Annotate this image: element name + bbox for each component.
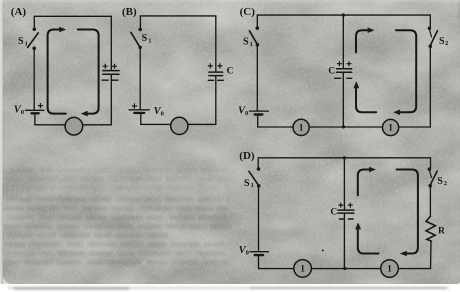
svg-text:1: 1 <box>251 182 254 189</box>
svg-text:R: R <box>438 226 445 236</box>
svg-text:0: 0 <box>246 250 249 257</box>
svg-text:2: 2 <box>445 40 448 47</box>
svg-text:1: 1 <box>387 264 392 274</box>
svg-text:1: 1 <box>299 122 304 132</box>
svg-text:(A): (A) <box>11 6 27 18</box>
svg-text:C: C <box>227 67 234 77</box>
svg-text:S: S <box>18 36 24 47</box>
svg-text:1: 1 <box>25 41 28 48</box>
svg-text:S: S <box>142 33 148 44</box>
svg-text:(C): (C) <box>240 6 256 18</box>
svg-text:C: C <box>330 207 337 217</box>
svg-text:(B): (B) <box>122 6 137 18</box>
svg-text:S: S <box>243 37 249 48</box>
svg-text:0: 0 <box>161 111 164 118</box>
svg-text:0: 0 <box>245 110 248 117</box>
svg-text:C: C <box>328 67 335 77</box>
svg-text:2: 2 <box>444 180 447 187</box>
svg-text:1: 1 <box>148 37 151 44</box>
svg-text:S: S <box>437 176 443 187</box>
svg-text:1: 1 <box>250 41 253 48</box>
svg-text:0: 0 <box>21 109 24 116</box>
svg-text:1: 1 <box>388 123 393 133</box>
svg-text:S: S <box>244 178 250 189</box>
svg-text:1: 1 <box>300 264 305 274</box>
svg-text:(D): (D) <box>239 150 255 162</box>
